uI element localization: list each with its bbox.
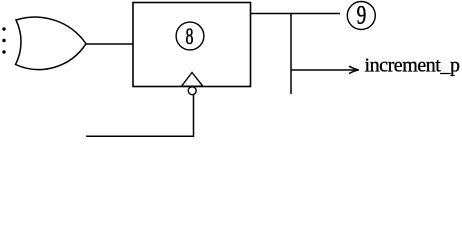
register U1 (box)	[133, 3, 251, 87]
wire: increment_p branch with arrowhead	[291, 66, 359, 73]
wire: register output (to node 9)	[251, 13, 341, 15]
svg-text:8: 8	[186, 24, 194, 50]
svg-text:9: 9	[357, 1, 367, 31]
input ellipsis dots	[2, 27, 5, 53]
svg-text:increment_p: increment_p	[365, 55, 460, 77]
wire: junction drop from output net	[290, 14, 292, 95]
clock inversion bubble	[188, 87, 196, 95]
wire: or-gate output to register input	[86, 43, 133, 45]
or-gate G1	[16, 17, 87, 69]
wire: clock net (down from bubble, then left)	[86, 95, 194, 136]
node 8 (circled label inside register)	[176, 22, 204, 50]
node 9 (circled label on output net)	[347, 1, 375, 31]
clock input triangle	[182, 73, 203, 87]
